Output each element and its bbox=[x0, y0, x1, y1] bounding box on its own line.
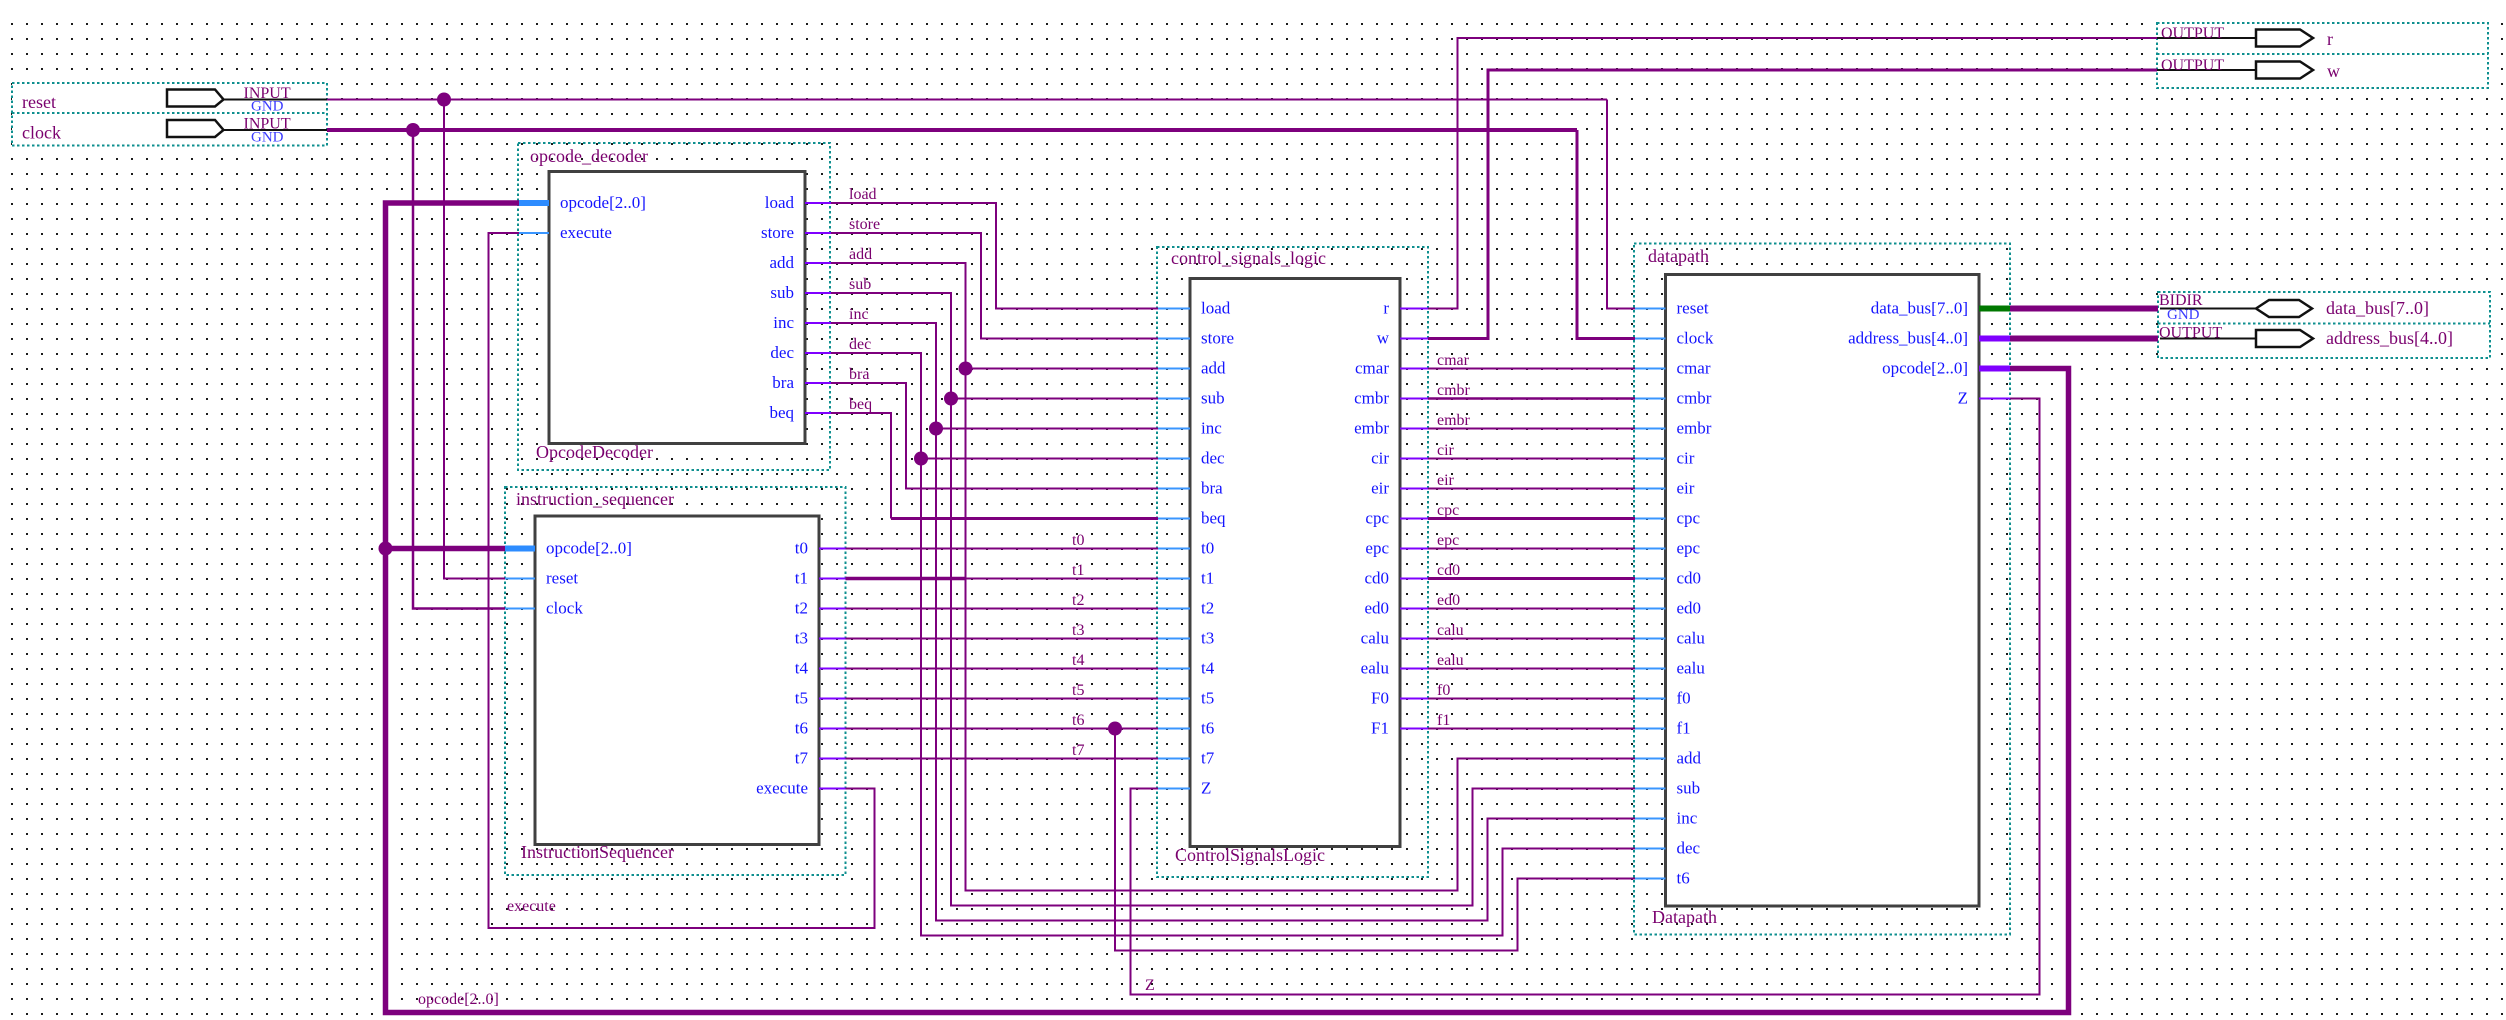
svg-text:opcode[2..0]: opcode[2..0] bbox=[560, 193, 646, 212]
svg-text:OUTPUT: OUTPUT bbox=[2161, 25, 2224, 42]
wire net inc: U1 inc to U3 inc bbox=[831, 323, 1158, 429]
output pin cell for r and w bbox=[2157, 23, 2488, 88]
svg-text:t7: t7 bbox=[1072, 742, 1084, 759]
bus net address_bus[4..0]: U4 to OUTPUT pin bbox=[2010, 336, 2158, 342]
svg-text:embr: embr bbox=[1437, 412, 1471, 429]
U3 input pin names bbox=[1201, 299, 1234, 798]
svg-text:cir: cir bbox=[1437, 442, 1455, 459]
svg-text:eir: eir bbox=[1437, 472, 1455, 489]
svg-text:t1: t1 bbox=[1201, 569, 1214, 588]
svg-text:beq: beq bbox=[849, 396, 872, 413]
wire net clock: input pin across top bbox=[327, 128, 1577, 132]
svg-text:beq: beq bbox=[1201, 509, 1226, 528]
wire net f1: U3 to U4 bbox=[1428, 728, 1635, 730]
svg-text:sub: sub bbox=[849, 276, 871, 293]
svg-text:r: r bbox=[2327, 29, 2333, 49]
junction net dec bbox=[914, 452, 928, 466]
svg-text:opcode[2..0]: opcode[2..0] bbox=[418, 991, 499, 1008]
junction net reset at clock column bbox=[437, 93, 451, 107]
wire net ealu: U3 to U4 bbox=[1428, 668, 1635, 670]
svg-text:load: load bbox=[765, 193, 795, 212]
svg-text:calu: calu bbox=[1361, 629, 1390, 648]
svg-text:cpc: cpc bbox=[1437, 502, 1459, 519]
svg-text:cmbr: cmbr bbox=[1677, 389, 1712, 408]
svg-text:cmbr: cmbr bbox=[1354, 389, 1389, 408]
svg-text:sub: sub bbox=[1677, 779, 1701, 798]
svg-text:calu: calu bbox=[1437, 622, 1464, 639]
svg-text:clock: clock bbox=[22, 123, 61, 143]
svg-text:beq: beq bbox=[769, 403, 794, 422]
svg-text:t7: t7 bbox=[795, 749, 809, 768]
input pin symbol clock bbox=[167, 120, 327, 137]
svg-text:t4: t4 bbox=[795, 659, 809, 678]
U1 output pin names bbox=[761, 193, 795, 422]
wire net calu: U3 to U4 bbox=[1428, 638, 1635, 640]
wire net cd0: U3 to U4 bbox=[1428, 577, 1635, 580]
svg-text:cir: cir bbox=[1371, 449, 1389, 468]
svg-text:execute: execute bbox=[560, 223, 612, 242]
svg-text:OUTPUT: OUTPUT bbox=[2159, 325, 2222, 342]
wire net add: U1 add to U3 add bbox=[831, 263, 1158, 369]
wire net t6: U2 t6 to U3 t6 bbox=[846, 728, 1159, 730]
svg-text:t3: t3 bbox=[795, 629, 808, 648]
svg-text:epc: epc bbox=[1437, 532, 1459, 549]
svg-text:OpcodeDecoder: OpcodeDecoder bbox=[536, 442, 653, 462]
wire net cpc: U3 to U4 bbox=[1428, 517, 1635, 520]
svg-text:t4: t4 bbox=[1072, 652, 1084, 669]
wire net store: U1 store to U3 store bbox=[831, 233, 1158, 339]
svg-text:ed0: ed0 bbox=[1364, 599, 1389, 618]
svg-text:f1: f1 bbox=[1437, 712, 1450, 729]
U2 input pin names bbox=[546, 539, 632, 618]
U1 opcode[2..0] input bus stub bbox=[519, 200, 549, 206]
svg-text:data_bus[7..0]: data_bus[7..0] bbox=[2326, 298, 2429, 318]
svg-text:datapath: datapath bbox=[1648, 246, 1709, 266]
block U2 InstructionSequencer (instruction_sequencer) bbox=[505, 487, 846, 875]
svg-text:sub: sub bbox=[1201, 389, 1225, 408]
svg-text:t6: t6 bbox=[795, 719, 808, 738]
svg-text:f1: f1 bbox=[1677, 719, 1691, 738]
wire net execute: U2 execute around to U1 execute bbox=[489, 233, 875, 928]
svg-text:ControlSignalsLogic: ControlSignalsLogic bbox=[1175, 845, 1325, 865]
U3 input stubs bbox=[1158, 309, 1190, 789]
bus net data_bus[7..0]: U4 to BIDIR pin bbox=[2010, 306, 2158, 312]
wire net eir: U3 to U4 bbox=[1428, 488, 1635, 490]
svg-text:t4: t4 bbox=[1201, 659, 1215, 678]
svg-text:eir: eir bbox=[1677, 479, 1695, 498]
junction net sub bbox=[944, 392, 958, 406]
U2 output stubs t0..t7,execute bbox=[819, 549, 846, 789]
svg-text:t0: t0 bbox=[1072, 532, 1084, 549]
svg-text:dec: dec bbox=[1677, 839, 1701, 858]
wire net t2: U2 t2 to U3 t2 bbox=[846, 608, 1159, 610]
svg-text:reset: reset bbox=[22, 92, 56, 112]
junction net clock bbox=[406, 123, 420, 137]
svg-text:ealu: ealu bbox=[1677, 659, 1706, 678]
svg-text:Z: Z bbox=[1958, 389, 1968, 408]
bus net opcode[2..0]: branch to U2 opcode bbox=[386, 546, 506, 552]
wire net add: junction down and around to U4 add bbox=[966, 369, 1636, 891]
svg-text:control_signals_logic: control_signals_logic bbox=[1171, 248, 1326, 268]
svg-text:t5: t5 bbox=[1072, 682, 1084, 699]
junction net add bbox=[959, 362, 973, 376]
svg-text:inc: inc bbox=[849, 306, 869, 323]
svg-text:calu: calu bbox=[1677, 629, 1706, 648]
svg-text:instruction_sequencer: instruction_sequencer bbox=[516, 489, 674, 509]
wire net reset: drop to U4 reset bbox=[1607, 100, 1635, 309]
svg-text:address_bus[4..0]: address_bus[4..0] bbox=[1848, 329, 1968, 348]
svg-text:clock: clock bbox=[1677, 329, 1714, 348]
svg-text:sub: sub bbox=[770, 283, 794, 302]
svg-text:ed0: ed0 bbox=[1437, 592, 1460, 609]
wire net load: U1 load to U3 load bbox=[831, 203, 1158, 309]
wire net cir: U3 to U4 bbox=[1428, 458, 1635, 460]
svg-text:ealu: ealu bbox=[1361, 659, 1390, 678]
svg-text:inc: inc bbox=[1201, 419, 1222, 438]
svg-text:inc: inc bbox=[1677, 809, 1698, 828]
wire net beq: across to U3 beq bbox=[891, 517, 1158, 520]
svg-text:cmar: cmar bbox=[1677, 359, 1711, 378]
svg-text:t3: t3 bbox=[1072, 622, 1084, 639]
U4 input pin names bbox=[1677, 299, 1714, 888]
wire net sub: junction down and around to U4 sub bbox=[951, 399, 1635, 906]
svg-text:t1: t1 bbox=[795, 569, 808, 588]
wire net inc: junction down and around to U4 inc bbox=[936, 429, 1635, 921]
svg-text:execute: execute bbox=[507, 898, 556, 915]
U2 reset and clock input stubs bbox=[505, 579, 535, 609]
svg-text:t7: t7 bbox=[1201, 749, 1215, 768]
wire net t1: U2 t1 to U3 t1 bbox=[846, 578, 1159, 580]
svg-text:cmar: cmar bbox=[1355, 359, 1389, 378]
U4 output pin names bbox=[1848, 299, 1968, 408]
svg-text:embr: embr bbox=[1354, 419, 1389, 438]
svg-text:dec: dec bbox=[770, 343, 794, 362]
svg-text:f0: f0 bbox=[1677, 689, 1691, 708]
svg-text:f0: f0 bbox=[1437, 682, 1450, 699]
input pin symbol reset bbox=[167, 90, 327, 107]
input pin cell for reset and clock bbox=[12, 83, 327, 146]
block U4 Datapath (datapath) bbox=[1634, 244, 2010, 935]
block U3 ControlSignalsLogic (control_signals_logic) bbox=[1157, 247, 1428, 877]
svg-text:reset: reset bbox=[1677, 299, 1709, 318]
svg-text:Z: Z bbox=[1201, 779, 1211, 798]
svg-text:reset: reset bbox=[546, 569, 578, 588]
svg-text:bra: bra bbox=[772, 373, 794, 392]
U4 opcode output bus stub bbox=[1979, 366, 2010, 372]
junction net t6 bbox=[1108, 722, 1122, 736]
U1 execute input stub bbox=[519, 232, 549, 234]
svg-text:cpc: cpc bbox=[1677, 509, 1701, 528]
wire net clock: drop to U4 clock bbox=[1577, 130, 1635, 339]
wire net dec: U1 dec to U3 dec bbox=[831, 353, 1158, 459]
svg-text:execute: execute bbox=[756, 779, 808, 798]
svg-text:opcode[2..0]: opcode[2..0] bbox=[1882, 359, 1968, 378]
wire net beq: U1 beq down bbox=[831, 413, 891, 519]
wire net reset: input pin to datapath column bbox=[327, 99, 1607, 101]
svg-text:add: add bbox=[849, 246, 872, 263]
U4 input stubs bbox=[1635, 309, 1666, 879]
svg-text:bra: bra bbox=[1201, 479, 1223, 498]
svg-text:dec: dec bbox=[849, 336, 871, 353]
wire net r: U3 r output to OUTPUT pin r bbox=[1428, 38, 2157, 309]
svg-text:w: w bbox=[2327, 61, 2340, 81]
wire net t4: U2 t4 to U3 t4 bbox=[846, 668, 1159, 670]
svg-text:t2: t2 bbox=[1072, 592, 1084, 609]
wire net clock: branch down to U2 clock bbox=[413, 130, 505, 609]
U3 output pin names bbox=[1354, 299, 1390, 738]
svg-text:cd0: cd0 bbox=[1364, 569, 1389, 588]
wire net t6: junction down and around to U4 t6 bbox=[1115, 729, 1635, 951]
wire net Z: U4 Z output around to U3 Z input bbox=[1131, 399, 2040, 995]
U1 input pin names bbox=[560, 193, 646, 242]
svg-text:eir: eir bbox=[1371, 479, 1389, 498]
svg-text:GND: GND bbox=[251, 99, 284, 115]
svg-text:load: load bbox=[849, 186, 877, 203]
wire net t5: U2 t5 to U3 t5 bbox=[846, 698, 1159, 700]
svg-text:cd0: cd0 bbox=[1437, 562, 1460, 579]
svg-text:t6: t6 bbox=[1072, 712, 1084, 729]
svg-text:inc: inc bbox=[773, 313, 794, 332]
svg-text:GND: GND bbox=[251, 130, 284, 146]
wire net t0: U2 t0 to U3 t0 bbox=[846, 548, 1159, 550]
svg-text:Datapath: Datapath bbox=[1652, 907, 1717, 927]
U4 data_bus output bus stub (green) bbox=[1979, 306, 2010, 312]
bus net opcode[2..0]: U4 opcode looping around bottom to U1 opcode bbox=[386, 203, 2069, 1013]
svg-text:clock: clock bbox=[546, 599, 583, 618]
svg-text:Z: Z bbox=[1145, 977, 1155, 994]
wire net epc: U3 to U4 bbox=[1428, 548, 1635, 550]
svg-text:add: add bbox=[1677, 749, 1702, 768]
svg-text:store: store bbox=[849, 216, 880, 233]
bidir pin symbol data_bus bbox=[2160, 300, 2312, 317]
output pin symbol address_bus bbox=[2160, 330, 2313, 347]
svg-text:t2: t2 bbox=[1201, 599, 1214, 618]
svg-text:bra: bra bbox=[849, 366, 869, 383]
svg-text:GND: GND bbox=[2167, 307, 2200, 323]
wire net reset: branch down to U2 reset bbox=[444, 100, 505, 579]
wire net cmar: U3 to U4 bbox=[1428, 368, 1635, 370]
wire net t1: thick overlap segment bbox=[846, 577, 966, 581]
svg-text:add: add bbox=[1201, 359, 1226, 378]
svg-text:load: load bbox=[1201, 299, 1231, 318]
U4 Z output stub bbox=[1979, 398, 2010, 400]
svg-text:t1: t1 bbox=[1072, 562, 1084, 579]
svg-text:store: store bbox=[761, 223, 794, 242]
bidir/output pin cell for data_bus and address_bus bbox=[2158, 292, 2490, 358]
svg-text:cpc: cpc bbox=[1365, 509, 1389, 528]
svg-text:t3: t3 bbox=[1201, 629, 1214, 648]
wire net embr: U3 to U4 bbox=[1428, 428, 1635, 430]
svg-text:embr: embr bbox=[1677, 419, 1712, 438]
svg-text:opcode_decoder: opcode_decoder bbox=[530, 146, 648, 166]
block U1 OpcodeDecoder (opcode_decoder) bbox=[518, 143, 830, 470]
svg-text:t6: t6 bbox=[1677, 869, 1690, 888]
svg-text:t6: t6 bbox=[1201, 719, 1214, 738]
svg-text:data_bus[7..0]: data_bus[7..0] bbox=[1871, 299, 1968, 318]
junction net inc bbox=[929, 422, 943, 436]
output pin symbol w bbox=[2157, 62, 2313, 79]
wire net t7: U2 t7 to U3 t7 bbox=[846, 758, 1159, 760]
svg-text:address_bus[4..0]: address_bus[4..0] bbox=[2326, 328, 2453, 348]
wire net sub: U1 sub to U3 sub bbox=[831, 293, 1158, 399]
svg-text:F0: F0 bbox=[1371, 689, 1389, 708]
svg-text:t5: t5 bbox=[1201, 689, 1214, 708]
svg-text:cd0: cd0 bbox=[1677, 569, 1702, 588]
U2 opcode[2..0] input bus stub bbox=[505, 546, 535, 552]
svg-text:opcode[2..0]: opcode[2..0] bbox=[546, 539, 632, 558]
svg-text:w: w bbox=[1377, 329, 1390, 348]
junction bus opcode[2..0] branch to U2 bbox=[379, 542, 393, 556]
output pin symbol r bbox=[2157, 30, 2313, 47]
svg-text:OUTPUT: OUTPUT bbox=[2161, 57, 2224, 74]
svg-text:t0: t0 bbox=[795, 539, 808, 558]
svg-text:cmbr: cmbr bbox=[1437, 382, 1471, 399]
svg-text:r: r bbox=[1383, 299, 1389, 318]
svg-text:t0: t0 bbox=[1201, 539, 1214, 558]
svg-text:InstructionSequencer: InstructionSequencer bbox=[521, 842, 674, 862]
svg-text:t2: t2 bbox=[795, 599, 808, 618]
wire net cmbr: U3 to U4 bbox=[1428, 397, 1635, 400]
U4 address_bus output bus stub bbox=[1979, 336, 2010, 342]
wire net f0: U3 to U4 bbox=[1428, 698, 1635, 700]
svg-text:cmar: cmar bbox=[1437, 352, 1470, 369]
svg-text:epc: epc bbox=[1365, 539, 1389, 558]
wire net dec: junction down and around to U4 dec bbox=[921, 459, 1635, 936]
svg-text:cir: cir bbox=[1677, 449, 1695, 468]
svg-text:epc: epc bbox=[1677, 539, 1701, 558]
svg-text:F1: F1 bbox=[1371, 719, 1389, 738]
wire net w: U3 w output to OUTPUT pin w bbox=[1428, 70, 2157, 339]
U3 output stubs bbox=[1400, 309, 1428, 729]
svg-text:t5: t5 bbox=[795, 689, 808, 708]
U1 output stubs load..beq bbox=[805, 203, 831, 413]
svg-text:dec: dec bbox=[1201, 449, 1225, 468]
wire net t3: U2 t3 to U3 t3 bbox=[846, 638, 1159, 640]
wire net bra: U1 bra to U3 bra bbox=[831, 383, 1158, 489]
svg-text:store: store bbox=[1201, 329, 1234, 348]
svg-text:ealu: ealu bbox=[1437, 652, 1464, 669]
wire net ed0: U3 to U4 bbox=[1428, 608, 1635, 610]
svg-text:add: add bbox=[769, 253, 794, 272]
svg-text:ed0: ed0 bbox=[1677, 599, 1702, 618]
U2 output pin names bbox=[756, 539, 808, 798]
